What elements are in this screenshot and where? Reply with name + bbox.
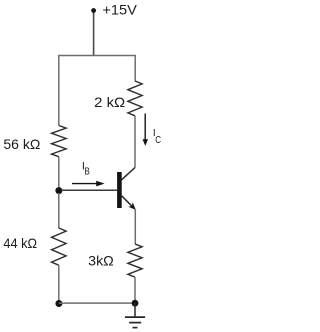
svg-text:44 kΩ: 44 kΩ (3, 235, 37, 251)
svg-text:56 kΩ: 56 kΩ (3, 136, 40, 152)
svg-text:B: B (84, 166, 90, 178)
svg-text:2 kΩ: 2 kΩ (94, 94, 125, 110)
svg-text:C: C (155, 134, 161, 146)
svg-text:+15V: +15V (102, 2, 137, 18)
svg-text:3kΩ: 3kΩ (88, 252, 114, 268)
